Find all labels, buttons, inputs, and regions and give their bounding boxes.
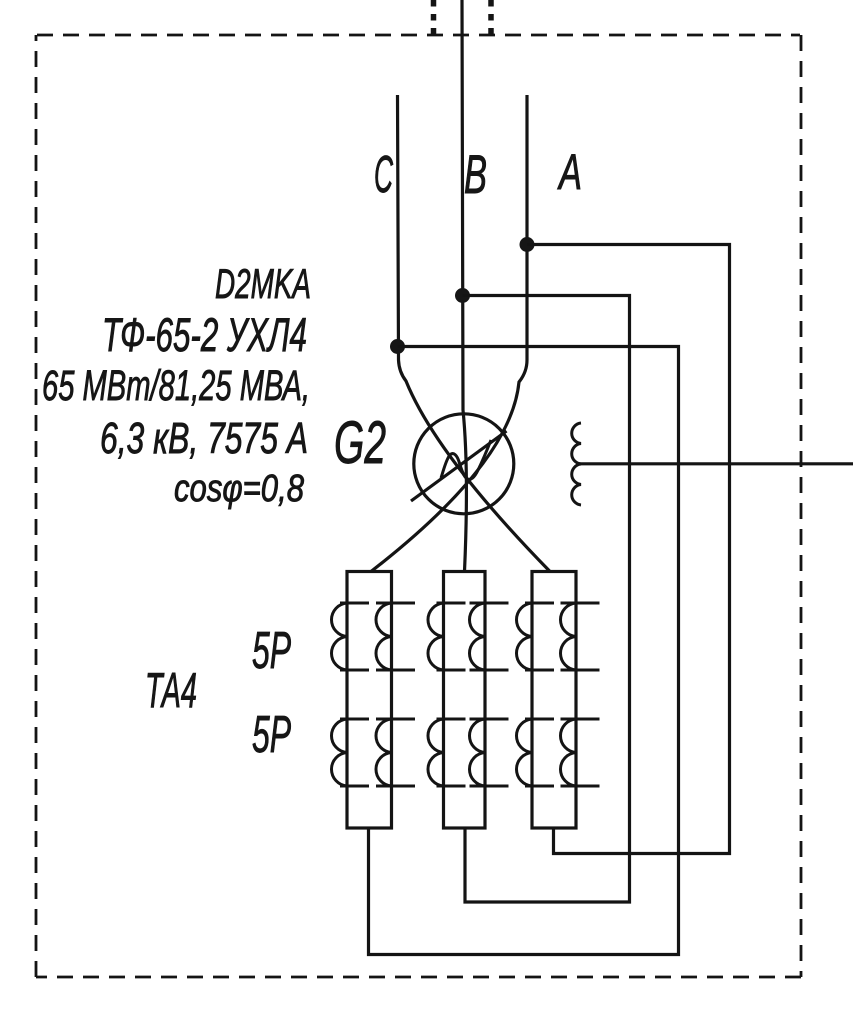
- dashed boundary right edge: [800, 35, 803, 977]
- bold dashed stub right (top cell wall): [488, 0, 494, 38]
- sine symbol axis inside generator: [411, 431, 507, 501]
- wire phase C vertical and diagonal into generator: [398, 95, 551, 572]
- wire phase A vertical and diagonal into generator: [371, 95, 527, 572]
- svg-text:5Р: 5Р: [252, 706, 291, 764]
- wire from node A right and down to CT3 bottom: [527, 245, 730, 854]
- CT2 winding row2 left: [428, 719, 466, 786]
- wire from node C right and down to CT1 bottom: [369, 347, 679, 955]
- svg-text:65 МВm/81,25 МВА,: 65 МВm/81,25 МВА,: [42, 362, 310, 410]
- CT2 winding row2 right: [469, 719, 508, 786]
- dashed boundary bottom edge: [36, 976, 801, 979]
- svg-text:ТА4: ТА4: [145, 664, 197, 718]
- wire phase B vertical: [462, 0, 466, 572]
- svg-text:5Р: 5Р: [252, 622, 291, 680]
- svg-text:cosφ=0,8: cosφ=0,8: [174, 468, 304, 510]
- svg-text:ТФ-65-2 УХЛ4: ТФ-65-2 УХЛ4: [102, 308, 307, 361]
- node B junction dot: [455, 288, 470, 303]
- svg-text:G2: G2: [334, 409, 386, 476]
- CT1 winding row2 left: [331, 719, 369, 786]
- generator G2 circle: [414, 414, 514, 514]
- CT1 winding row2 right: [376, 719, 415, 786]
- node C junction dot: [390, 339, 405, 354]
- CT TA4 primary bar 3: [532, 572, 576, 829]
- bold dashed stub left (top cell wall): [431, 0, 437, 38]
- CT2 winding row1 left: [428, 603, 466, 670]
- svg-text:A: A: [557, 144, 582, 200]
- node A junction dot: [520, 237, 535, 252]
- CT1 winding row1 left: [331, 603, 369, 670]
- field winding coil of G2: [572, 423, 581, 505]
- CT TA4 primary bar 1: [347, 572, 392, 829]
- CT3 winding row2 left: [516, 719, 554, 786]
- wire from field winding to right edge: [576, 462, 853, 465]
- CT3 winding row2 right: [560, 719, 599, 786]
- dashed boundary top edge: [37, 34, 800, 37]
- svg-text:C: C: [374, 146, 393, 204]
- sine symbol wave inside generator: [441, 440, 491, 479]
- CT3 winding row1 left: [516, 603, 554, 670]
- CT3 winding row1 right: [560, 603, 599, 670]
- CT TA4 primary bar 2: [444, 572, 486, 829]
- svg-text:6,3 кВ, 7575 А: 6,3 кВ, 7575 А: [100, 414, 308, 463]
- CT1 winding row1 right: [376, 603, 415, 670]
- svg-text:D2MKA: D2MKA: [215, 260, 311, 307]
- wire from node B right and down to CT2 bottom: [463, 296, 630, 903]
- CT2 winding row1 right: [469, 603, 508, 670]
- svg-text:B: B: [464, 143, 487, 205]
- dashed boundary left edge: [35, 35, 38, 977]
